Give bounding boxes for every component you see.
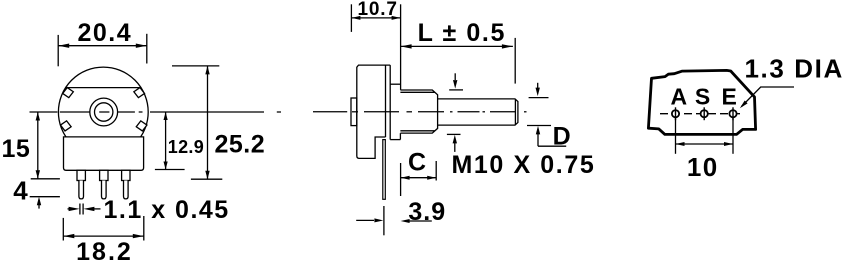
terminal plate outline	[648, 70, 755, 134]
seating plane tick	[31, 178, 60, 180]
side view can right face	[385, 65, 387, 137]
svg-text:18.2: 18.2	[76, 238, 133, 263]
hub inner circle	[95, 103, 113, 121]
crimp tab upper-left	[62, 87, 74, 99]
svg-text:C: C	[408, 149, 427, 177]
svg-text:D: D	[553, 122, 572, 150]
terminal pin 2	[100, 170, 108, 180]
svg-text:L ± 0.5: L ± 0.5	[418, 19, 506, 47]
dimension 12.9 line	[165, 112, 167, 170]
terminal hole 3	[729, 110, 736, 117]
bushing base	[390, 83, 400, 85]
dimension 20.4 extension lines	[57, 35, 59, 66]
svg-text:3.9: 3.9	[408, 198, 446, 226]
threaded bushing	[400, 90, 437, 133]
dimension 10.7 line	[351, 17, 400, 19]
shaft	[438, 99, 518, 125]
svg-text:10: 10	[687, 152, 719, 182]
hub outer circle	[90, 98, 118, 126]
dimension L line	[401, 45, 513, 47]
front view centerline	[30, 111, 58, 113]
dimension 15 line	[37, 112, 39, 179]
dimension 3.9 right arrow	[401, 219, 410, 223]
front view top chord line	[65, 87, 141, 89]
svg-text:4: 4	[13, 175, 28, 205]
side view rear boss	[351, 98, 357, 126]
crimp tab lower-right	[135, 120, 147, 132]
svg-text:1.3 DIA: 1.3 DIA	[745, 53, 844, 83]
dimension 18.2 line	[63, 235, 144, 237]
svg-text:15: 15	[1, 135, 30, 163]
locating lug	[383, 140, 386, 200]
dimension C line	[401, 177, 437, 179]
thread callout top arrow	[454, 73, 456, 80]
svg-text:1.1 x 0.45: 1.1 x 0.45	[104, 196, 230, 224]
dimension 20.4 line	[58, 45, 147, 47]
front view body circle	[58, 67, 148, 157]
svg-text:M10 X 0.75: M10 X 0.75	[452, 151, 596, 179]
dimension L extension line	[514, 38, 516, 84]
side view centerline	[313, 111, 347, 113]
svg-text:E: E	[722, 83, 737, 109]
dimension 3.9 extension line	[383, 206, 385, 235]
mounting flange	[389, 65, 391, 140]
hole dia leader	[742, 87, 795, 107]
dimension 1.1x0.45 arrows	[68, 208, 73, 210]
thread callout bottom arrow	[447, 133, 461, 135]
dimension 10.7 extension line	[350, 4, 352, 32]
crimp tab lower-left	[60, 120, 72, 132]
shaft dia callout top arrow	[537, 83, 539, 88]
dimension 3.9 left arrow	[356, 219, 374, 221]
svg-text:20.4: 20.4	[77, 19, 132, 47]
crimp tab upper-right	[133, 87, 145, 99]
dimension 10 extension lines	[675, 118, 677, 154]
side view can body	[357, 65, 390, 158]
dimension 10 line	[676, 143, 734, 145]
dimension 12.9 bottom tick	[155, 169, 185, 171]
dimension 18.2 extension lines	[62, 218, 64, 241]
svg-text:25.2: 25.2	[215, 131, 266, 159]
terminal hole 2	[701, 110, 708, 117]
terminal pin 3	[122, 170, 130, 180]
mounting face reference line	[400, 4, 402, 90]
shaft dia callout bottom arrow	[527, 125, 551, 127]
dimension C extension line	[435, 161, 437, 181]
dimension 25.2 ticks	[172, 65, 219, 67]
rear view centerline	[660, 113, 744, 115]
svg-text:10.7: 10.7	[358, 0, 398, 20]
dimension 4 tick	[30, 196, 60, 198]
terminal hole 1	[672, 110, 679, 117]
dimension 4 arrow	[37, 197, 41, 206]
svg-text:A: A	[670, 83, 687, 109]
dimension 25.2 line	[207, 66, 209, 179]
svg-text:12.9: 12.9	[168, 137, 204, 157]
terminal pin 1	[77, 170, 85, 180]
svg-text:S: S	[695, 83, 710, 109]
front view case rectangle	[64, 137, 144, 170]
